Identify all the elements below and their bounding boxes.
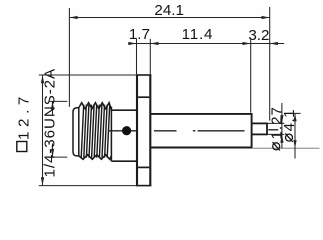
center pin dia 1.27 xyxy=(252,123,267,136)
solder contact dot on shank xyxy=(122,126,131,135)
thread profile (1/4-36 thread of connector body) xyxy=(79,103,112,162)
square flange 12.7 xyxy=(136,75,151,186)
thread hatch lines xyxy=(81,105,110,158)
square symbol of 12.7 label xyxy=(17,142,27,152)
extension line flange bottom (12.7) xyxy=(39,185,137,187)
extension line pin top xyxy=(268,122,285,124)
thread callout dimension arrows xyxy=(51,101,54,157)
svg-text:1/4-36UNS-2A: 1/4-36UNS-2A xyxy=(42,68,59,178)
barrel body dia 4.1 xyxy=(150,113,252,148)
extension line pin bottom xyxy=(268,133,285,135)
dimension line 24.1 xyxy=(69,16,269,19)
dimension line dia 4.1 xyxy=(293,113,296,158)
svg-text:4.1: 4.1 xyxy=(281,109,298,131)
extension line flange right (1.7 / 11.4) xyxy=(149,39,151,75)
extension stub thread bottom xyxy=(49,156,67,158)
thread end cap xyxy=(73,108,79,156)
shank between thread and flange xyxy=(111,110,136,161)
diameter symbol for 4.1 xyxy=(285,133,292,141)
dimension line square 12.7 vertical xyxy=(41,75,44,186)
svg-text:1.7: 1.7 xyxy=(129,26,150,43)
extension line flange left (1.7) xyxy=(136,39,138,75)
dimension line dia 1.27 xyxy=(280,103,283,148)
extension line right shared (24.1 / 3.2) xyxy=(269,7,271,121)
diameter symbol for 1.27 xyxy=(273,142,280,150)
extension stub barrel top right xyxy=(288,112,301,114)
dimension line row 1.7 / 11.4 / 3.2 xyxy=(128,42,284,45)
extension stub thread top xyxy=(49,100,67,102)
svg-text:3.2: 3.2 xyxy=(248,27,269,44)
extension line barrel bottom gray xyxy=(252,147,319,149)
extension line left (24.1) xyxy=(68,8,70,107)
svg-text:11.4: 11.4 xyxy=(182,26,214,43)
extension line flange top (12.7) xyxy=(39,74,137,76)
extension line barrel end (11.4 / 3.2) xyxy=(250,39,252,113)
centerline xyxy=(108,130,278,131)
svg-text:12.7: 12.7 xyxy=(15,92,32,140)
svg-text:24.1: 24.1 xyxy=(154,2,184,19)
flange mounting-hole lines xyxy=(138,97,149,167)
